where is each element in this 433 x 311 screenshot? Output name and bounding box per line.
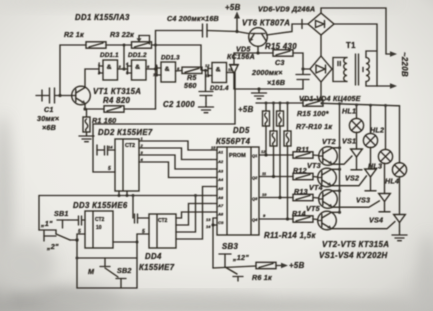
svg-text:DD1.2: DD1.2 — [128, 52, 147, 59]
svg-text:×6В: ×6В — [42, 123, 56, 132]
svg-text:A2: A2 — [217, 159, 224, 164]
chip DD3 — [85, 211, 113, 248]
svg-text:×16В: ×16В — [267, 78, 285, 87]
capacitor C2 — [205, 70, 207, 91]
svg-text:14: 14 — [108, 145, 113, 150]
svg-text:DD1.3: DD1.3 — [161, 55, 180, 62]
resistor R15 — [258, 52, 273, 54]
capacitor C1 — [49, 88, 51, 103]
svg-text:A7: A7 — [217, 203, 224, 208]
svg-text:DD1.4: DD1.4 — [210, 85, 229, 92]
svg-text:VS4: VS4 — [369, 216, 383, 225]
wire lamp bus — [256, 102, 303, 104]
wire DD1.4 out down to rail — [227, 73, 236, 125]
svg-text:DD5: DD5 — [233, 126, 250, 135]
thyristor VS1 — [356, 132, 358, 149]
svg-text:CS: CS — [218, 220, 224, 225]
wire R3 right run — [152, 45, 202, 70]
svg-text:2000мк×: 2000мк× — [251, 68, 283, 77]
ground under VS4 — [392, 231, 407, 241]
svg-text:„1": „1" — [40, 219, 53, 228]
svg-text:5: 5 — [108, 166, 111, 172]
svg-text:A1: A1 — [217, 150, 224, 155]
svg-text:A3: A3 — [217, 169, 224, 174]
wire winding II bottom — [333, 58, 347, 82]
svg-text:C1: C1 — [44, 105, 54, 114]
resistor R3 trimmer — [132, 42, 152, 48]
chip DD4 — [149, 214, 176, 248]
svg-text:HL4: HL4 — [385, 177, 399, 186]
capacitor C4 — [202, 24, 204, 37]
svg-text:СТ2: СТ2 — [95, 217, 105, 223]
svg-text:VT6 КТ807А: VT6 КТ807А — [242, 19, 290, 28]
svg-text:VT2: VT2 — [322, 137, 336, 146]
wire gate3 out to R5 — [176, 70, 183, 73]
collector rail — [339, 104, 341, 213]
resistor R16 — [303, 100, 323, 106]
svg-text:5: 5 — [78, 229, 81, 235]
svg-text:DD2 К155ИЕ7: DD2 К155ИЕ7 — [98, 128, 153, 137]
resistor R6 — [256, 262, 276, 268]
wire SB1 left vertical — [38, 196, 40, 231]
resistor R14 — [293, 216, 313, 222]
wire R9 drop — [273, 146, 275, 177]
bridge rectifier VD6-VD9 — [308, 13, 334, 35]
svg-text:КС156А: КС156А — [227, 52, 255, 61]
bridge1 right wire — [334, 24, 377, 86]
wire gate1 out — [118, 68, 128, 70]
svg-text:R7-R10 1к: R7-R10 1к — [296, 122, 332, 131]
svg-text:C4 200мк×16В: C4 200мк×16В — [167, 14, 219, 23]
gate DD1.4 — [208, 63, 227, 83]
wire SB2 loop — [76, 240, 78, 288]
wire C1 to VT1 base — [55, 95, 72, 97]
svg-text:R11-R14 1,5к: R11-R14 1,5к — [264, 231, 316, 240]
svg-text:SB2: SB2 — [117, 266, 132, 275]
svg-text:VD1-VD4 КЦ405Е: VD1-VD4 КЦ405Е — [299, 94, 361, 103]
svg-text:DD1.1: DD1.1 — [100, 52, 119, 59]
wire C4 to VT6 — [207, 31, 249, 34]
wire winding I bottom / 220V lower — [366, 82, 377, 87]
DD5 output wires — [259, 154, 293, 156]
wire bridge2 left vertex — [303, 68, 310, 70]
svg-text:VT2-VT5 КТ315А: VT2-VT5 КТ315А — [322, 240, 389, 249]
svg-text:A8: A8 — [217, 212, 224, 217]
transistor VT4 — [319, 190, 338, 209]
lamp HL3 — [385, 106, 387, 150]
node C4 branch — [154, 44, 157, 47]
resistor R11 — [293, 152, 313, 158]
svg-text:10: 10 — [96, 225, 102, 231]
svg-text:VS2: VS2 — [345, 174, 359, 183]
wire VT1 collector to DD1.1 input — [85, 69, 99, 88]
svg-text:СТ2: СТ2 — [125, 143, 135, 149]
gate DD1.1 — [99, 60, 118, 80]
wire VT1 emitter to R4 — [84, 104, 86, 109]
thyristor VS4 — [399, 177, 401, 215]
svg-text:R2 1к: R2 1к — [64, 30, 84, 39]
svg-text:12: 12 — [261, 149, 266, 154]
lamp HL1 — [356, 105, 358, 119]
transistor VT6 — [249, 28, 268, 47]
emitter gate wires — [333, 156, 353, 164]
svg-text:5: 5 — [142, 229, 145, 235]
wire DD5 CS down — [212, 218, 214, 268]
DD2 output wires staircase — [139, 141, 211, 150]
svg-text:VT1 КТ315А: VT1 КТ315А — [93, 87, 141, 96]
svg-text:PROM: PROM — [229, 153, 246, 159]
wire bridge2 bottom to lamp bus — [320, 82, 322, 100]
svg-text:R12: R12 — [293, 166, 307, 175]
thyristor VS3 — [384, 163, 386, 193]
svg-text:Т1: Т1 — [346, 41, 356, 50]
svg-text:15: 15 — [211, 145, 216, 150]
DD4 output staircase — [176, 212, 211, 218]
svg-text:DD3 К155ИЕ6: DD3 К155ИЕ6 — [73, 201, 128, 210]
svg-text:II: II — [337, 59, 341, 68]
capacitor C1 input terminal — [36, 95, 49, 97]
wire down to R4 — [155, 45, 157, 109]
svg-text:SB3: SB3 — [222, 242, 239, 251]
svg-text:A4: A4 — [217, 177, 224, 182]
ground under R1 — [79, 132, 94, 142]
thyristor VS2 — [370, 147, 372, 169]
wire R7 drop — [265, 126, 267, 155]
wire tap down to gate node — [123, 45, 125, 69]
svg-text:R14: R14 — [292, 209, 306, 218]
lamp HL2 — [370, 105, 372, 133]
wire R8 drop — [279, 126, 281, 198]
svg-text:10: 10 — [153, 72, 158, 77]
DD5 address stubs — [211, 149, 217, 151]
resistor R1 — [86, 109, 88, 117]
wire to VD5 — [234, 52, 258, 54]
svg-text:14: 14 — [206, 224, 211, 229]
svg-text:DD1 К155ЛА3: DD1 К155ЛА3 — [75, 13, 130, 22]
ground under C2 — [205, 96, 207, 103]
wire bottom gnd run — [234, 88, 303, 90]
svg-text:VT4: VT4 — [309, 183, 323, 192]
resistor R4 — [104, 106, 124, 112]
DD3 output wire — [113, 241, 137, 243]
resistor R13 — [293, 194, 313, 200]
svg-text:~220В: ~220В — [400, 52, 409, 77]
svg-text:R3 22к: R3 22к — [110, 30, 134, 39]
svg-text:C2 1000: C2 1000 — [163, 100, 195, 109]
DD4 pin5 wire — [137, 233, 149, 235]
wire VT6 base down — [257, 47, 259, 54]
svg-text:К155ИЕ7: К155ИЕ7 — [139, 263, 175, 272]
bridge rectifier VD1-VD4 — [310, 56, 332, 82]
DD2 clock input — [96, 145, 98, 155]
svg-text:R13: R13 — [294, 187, 308, 196]
svg-text:SB1: SB1 — [54, 209, 69, 218]
svg-text:„12": „12" — [232, 253, 249, 262]
svg-text:Q2: Q2 — [252, 175, 258, 180]
svg-text:A6: A6 — [217, 195, 224, 200]
svg-text:HL2: HL2 — [370, 126, 384, 135]
svg-text:R15 100*: R15 100* — [297, 109, 330, 118]
bridge1 top wire to 220V — [321, 8, 386, 54]
resistor R2 — [86, 42, 106, 48]
svg-text:30мк×: 30мк× — [37, 114, 60, 123]
chip DD2 — [115, 139, 139, 191]
node SB1 pole — [70, 234, 85, 240]
svg-text:A5: A5 — [217, 186, 224, 191]
svg-text:10: 10 — [262, 192, 267, 197]
wire feedback vertical — [60, 45, 86, 96]
wire R5 to DD1.4 — [202, 69, 208, 71]
220V arrow upper — [386, 53, 391, 55]
svg-text:VT5: VT5 — [306, 204, 321, 213]
wire up to C4 — [156, 31, 203, 46]
wire long ground rail — [93, 124, 235, 172]
resistor R12 — [293, 173, 313, 179]
DD4 clock input — [132, 196, 134, 219]
svg-text:СТ2: СТ2 — [158, 218, 168, 224]
zener VD5 — [233, 53, 235, 64]
wire bus right — [323, 103, 400, 106]
capacitor C3 — [296, 74, 310, 76]
svg-text:13: 13 — [205, 73, 210, 78]
svg-text:К556РТ4: К556РТ4 — [216, 137, 251, 146]
DD5 CS pins — [213, 217, 217, 219]
+5V arrow right — [276, 265, 282, 267]
svg-text:VD6-VD9 Д246А: VD6-VD9 Д246А — [258, 4, 315, 13]
bridge1 bottom to bridge2 top — [320, 35, 322, 56]
svg-text:12: 12 — [205, 63, 210, 68]
transistor VT2 — [319, 147, 338, 166]
+5V arrow top — [235, 30, 238, 33]
svg-text:Q3: Q3 — [252, 196, 258, 201]
wire R2-R3 — [106, 44, 132, 46]
wire VT6 collector to bridge1 — [267, 24, 303, 35]
wire SB1 long rail — [39, 195, 211, 197]
transistor VT3 — [318, 168, 337, 187]
DD3 clock input — [76, 219, 79, 221]
svg-text:C3: C3 — [275, 58, 285, 67]
svg-text:+5В: +5В — [225, 3, 241, 12]
transistor VT1 — [72, 86, 91, 105]
node base junction — [58, 94, 61, 97]
wire R15 to raw dc node — [293, 53, 303, 74]
svg-text:13: 13 — [206, 217, 211, 222]
svg-text:М: М — [88, 267, 95, 276]
svg-text:Q4: Q4 — [252, 217, 258, 222]
resistor R5 — [182, 67, 202, 73]
svg-text:VS1: VS1 — [342, 137, 356, 146]
svg-text:„2": „2" — [46, 242, 59, 251]
wire R10 drop — [287, 146, 289, 219]
wire winding I top — [366, 51, 377, 58]
gate DD1.2 — [128, 60, 147, 80]
svg-text:R4 820: R4 820 — [103, 96, 131, 105]
lamp HL4 — [399, 106, 401, 163]
gate DD1.3 — [157, 62, 176, 82]
svg-text:R11: R11 — [296, 145, 309, 154]
svg-text:Q1: Q1 — [252, 153, 258, 158]
wire gate2 out — [146, 68, 157, 70]
transistor VT5 — [318, 211, 337, 230]
svg-text:VS1-VS4 КУ202Н: VS1-VS4 КУ202Н — [319, 251, 388, 260]
svg-text:560: 560 — [184, 81, 197, 90]
chip DD5 — [217, 147, 259, 235]
svg-text:I: I — [362, 65, 364, 74]
svg-text:HL1: HL1 — [342, 107, 356, 116]
ground mid — [252, 89, 267, 99]
svg-text:+5В: +5В — [238, 105, 254, 114]
svg-text:R15 430: R15 430 — [265, 42, 297, 51]
DD2 bottom pins — [118, 191, 120, 196]
svg-text:VT3: VT3 — [307, 161, 321, 170]
svg-text:DD4: DD4 — [145, 252, 162, 261]
node R2R3 — [123, 44, 126, 47]
svg-text:R6 1к: R6 1к — [252, 273, 272, 282]
svg-text:VS3: VS3 — [356, 196, 370, 205]
svg-text:+5В: +5В — [289, 261, 305, 270]
